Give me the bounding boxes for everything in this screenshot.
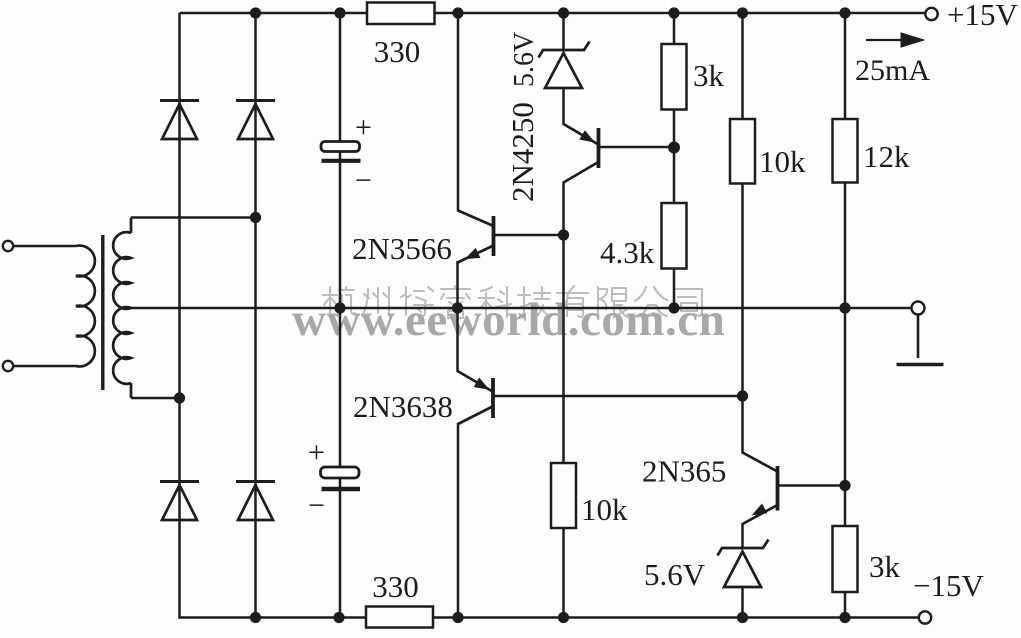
svg-text:10k: 10k (581, 492, 628, 527)
svg-text:25mA: 25mA (855, 54, 930, 87)
svg-text:−: − (308, 489, 325, 522)
svg-text:10k: 10k (759, 144, 806, 179)
svg-text:330: 330 (372, 569, 419, 604)
svg-text:2N365: 2N365 (642, 454, 726, 489)
svg-text:3k: 3k (869, 549, 901, 584)
svg-text:12k: 12k (863, 139, 910, 174)
svg-text:2N3638: 2N3638 (353, 389, 453, 424)
svg-text:+: + (308, 436, 325, 469)
svg-text:4.3k: 4.3k (600, 235, 655, 270)
svg-text:2N4250: 2N4250 (505, 102, 540, 202)
svg-text:3k: 3k (693, 58, 725, 93)
svg-text:5.6V: 5.6V (644, 557, 706, 592)
svg-text:−15V: −15V (913, 568, 984, 603)
svg-text:www.eeworld.com.cn: www.eeworld.com.cn (292, 294, 725, 346)
svg-text:+15V: +15V (947, 0, 1018, 32)
svg-text:5.6V: 5.6V (509, 32, 540, 87)
svg-text:+: + (355, 111, 372, 144)
svg-text:−: − (355, 164, 372, 197)
svg-text:330: 330 (374, 34, 421, 69)
svg-text:2N3566: 2N3566 (352, 231, 452, 266)
